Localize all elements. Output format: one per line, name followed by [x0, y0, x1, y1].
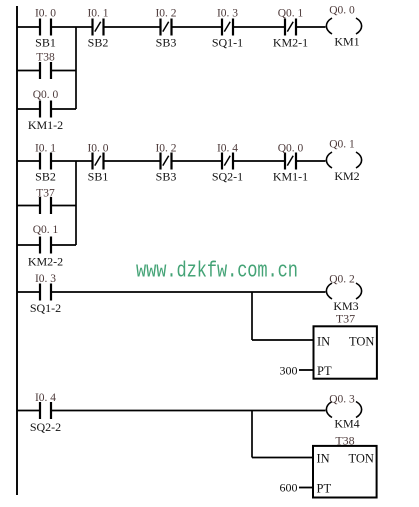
- svg-text:I0. 4: I0. 4: [35, 392, 56, 404]
- svg-text:KM4: KM4: [334, 417, 359, 431]
- svg-text:I0. 2: I0. 2: [155, 143, 176, 155]
- svg-text:www.dzkfw.com.cn: www.dzkfw.com.cn: [136, 259, 298, 284]
- svg-text:SB3: SB3: [156, 36, 177, 50]
- svg-text:T38: T38: [335, 434, 354, 448]
- svg-text:600: 600: [280, 481, 298, 495]
- svg-text:TON: TON: [349, 335, 374, 349]
- svg-text:Q0. 1: Q0. 1: [33, 224, 59, 236]
- svg-text:IN: IN: [317, 452, 330, 466]
- svg-text:I0. 1: I0. 1: [35, 143, 56, 155]
- svg-text:Q0. 0: Q0. 0: [329, 5, 355, 17]
- svg-text:I0. 1: I0. 1: [87, 8, 108, 20]
- svg-text:KM2-1: KM2-1: [273, 36, 308, 50]
- svg-text:T38: T38: [36, 52, 55, 64]
- svg-text:IN: IN: [317, 335, 330, 349]
- svg-text:T37: T37: [336, 312, 355, 326]
- svg-text:I0. 0: I0. 0: [87, 143, 108, 155]
- svg-text:SB2: SB2: [35, 170, 56, 184]
- svg-text:I0. 3: I0. 3: [35, 273, 56, 285]
- svg-text:I0. 4: I0. 4: [217, 143, 238, 155]
- svg-text:TON: TON: [349, 452, 374, 466]
- svg-text:PT: PT: [317, 482, 332, 496]
- svg-text:SB2: SB2: [88, 36, 109, 50]
- svg-text:Q0. 0: Q0. 0: [278, 143, 304, 155]
- svg-text:Q0. 0: Q0. 0: [33, 89, 59, 101]
- svg-text:SQ1-1: SQ1-1: [212, 36, 243, 50]
- svg-text:I0. 3: I0. 3: [217, 8, 238, 20]
- svg-text:Q0. 1: Q0. 1: [278, 8, 304, 20]
- svg-text:SB1: SB1: [35, 36, 56, 50]
- svg-text:KM2-2: KM2-2: [28, 255, 63, 269]
- svg-text:PT: PT: [317, 364, 332, 378]
- svg-text:SB3: SB3: [156, 170, 177, 184]
- svg-text:Q0. 3: Q0. 3: [329, 394, 355, 406]
- svg-text:SQ1-2: SQ1-2: [30, 301, 61, 315]
- svg-text:I0. 2: I0. 2: [155, 8, 176, 20]
- svg-text:Q0. 1: Q0. 1: [329, 139, 355, 151]
- svg-text:KM1-2: KM1-2: [28, 118, 63, 132]
- svg-text:KM2: KM2: [334, 169, 359, 183]
- svg-text:T37: T37: [36, 188, 55, 200]
- svg-text:SQ2-1: SQ2-1: [212, 170, 243, 184]
- svg-text:KM1: KM1: [334, 35, 359, 49]
- svg-text:SQ2-2: SQ2-2: [30, 420, 61, 434]
- svg-text:Q0. 2: Q0. 2: [329, 274, 355, 286]
- svg-text:KM1-1: KM1-1: [273, 170, 308, 184]
- svg-text:I0. 0: I0. 0: [35, 8, 56, 20]
- svg-text:300: 300: [280, 364, 298, 378]
- svg-text:SB1: SB1: [88, 170, 109, 184]
